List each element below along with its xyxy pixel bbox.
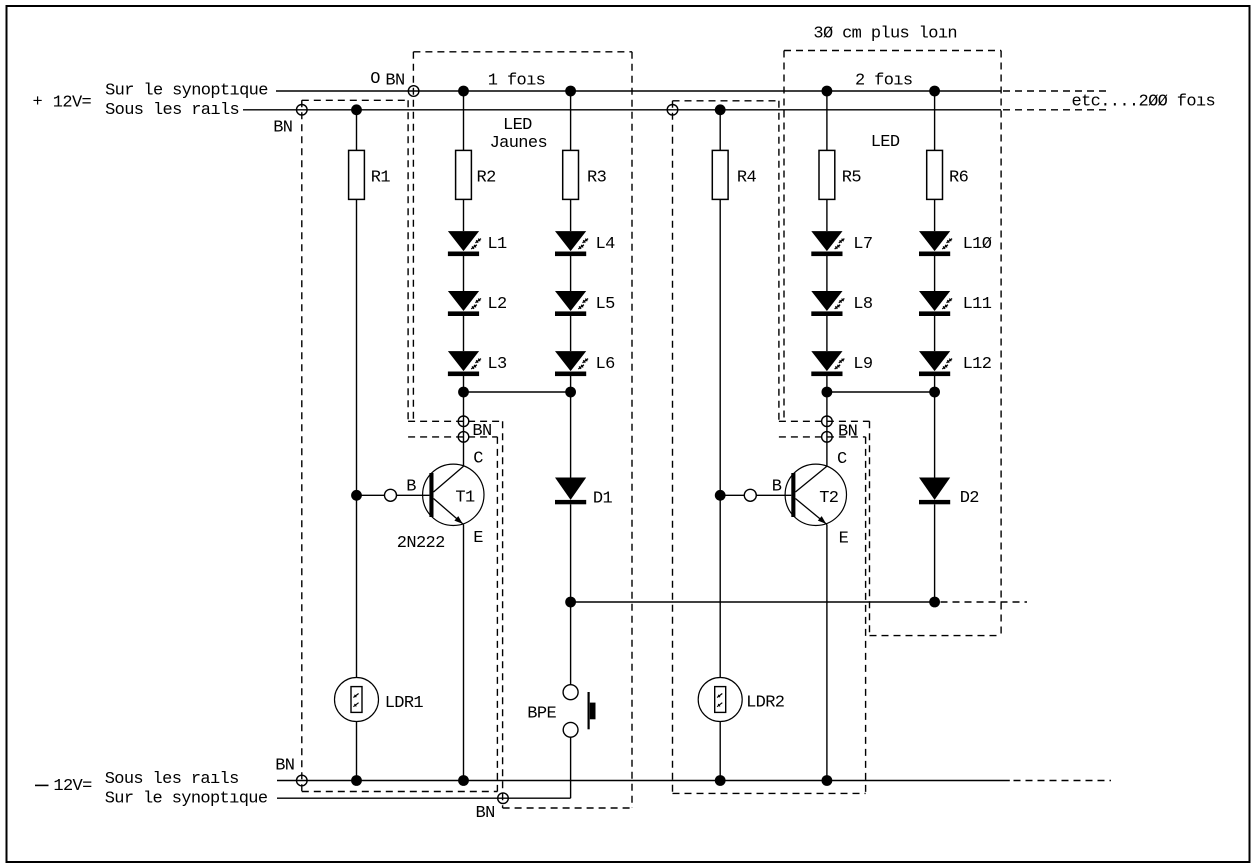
svg-text:1 foıs: 1 foıs [488,72,545,91]
svg-text:D1: D1 [593,489,613,508]
svg-text:LED: LED [871,133,900,152]
svg-text:etc....2ØØ foıs: etc....2ØØ foıs [1072,92,1216,111]
svg-text:12V=: 12V= [53,777,92,796]
svg-text:T1: T1 [455,489,475,508]
svg-text:LDR2: LDR2 [746,693,784,712]
svg-text:BN: BN [476,804,495,823]
svg-text:L6: L6 [596,355,616,374]
svg-text:L3: L3 [487,355,507,374]
svg-text:L5: L5 [596,295,616,314]
svg-text:LED: LED [503,116,532,135]
svg-text:Sur le synoptıque: Sur le synoptıque [105,82,268,101]
svg-text:T2: T2 [819,489,838,508]
svg-text:R5: R5 [842,169,862,188]
svg-text:R3: R3 [587,169,607,188]
svg-text:BN: BN [275,756,294,775]
svg-text:R4: R4 [737,169,757,188]
svg-text:BPE: BPE [527,704,556,723]
svg-text:BN: BN [838,423,857,442]
svg-text:R2: R2 [477,169,496,188]
svg-text:2N222: 2N222 [397,534,445,553]
svg-text:B: B [772,477,782,496]
svg-text:Sous les raıls: Sous les raıls [105,770,239,789]
svg-text:L7: L7 [853,235,872,254]
svg-text:Sous les raıls: Sous les raıls [105,101,239,120]
svg-text:R6: R6 [949,169,969,188]
svg-text:BN: BN [273,119,292,138]
svg-text:E: E [839,529,849,548]
svg-text:C: C [473,449,483,468]
svg-text:+: + [33,93,43,112]
svg-text:D2: D2 [960,489,979,508]
svg-text:L12: L12 [963,355,992,374]
svg-text:Sur le synoptıque: Sur le synoptıque [105,789,268,808]
svg-text:Jaunes: Jaunes [490,134,547,153]
svg-text:R1: R1 [371,169,391,188]
svg-text:2 foıs: 2 foıs [855,72,912,91]
svg-text:O: O [370,70,380,89]
svg-text:BN: BN [385,71,404,90]
svg-text:LDR1: LDR1 [385,694,424,713]
svg-text:L4: L4 [596,235,616,254]
svg-text:B: B [406,478,416,497]
svg-text:3Ø cm plus loın: 3Ø cm plus loın [813,25,957,44]
svg-text:E: E [473,529,483,548]
svg-text:12V=: 12V= [53,94,92,113]
svg-text:L1: L1 [487,235,507,254]
svg-text:L11: L11 [963,295,992,314]
svg-text:BN: BN [472,422,491,441]
svg-text:C: C [837,450,847,469]
svg-text:L1Ø: L1Ø [963,235,992,254]
svg-text:L9: L9 [853,355,873,374]
svg-text:L2: L2 [487,295,506,314]
svg-text:L8: L8 [853,295,873,314]
